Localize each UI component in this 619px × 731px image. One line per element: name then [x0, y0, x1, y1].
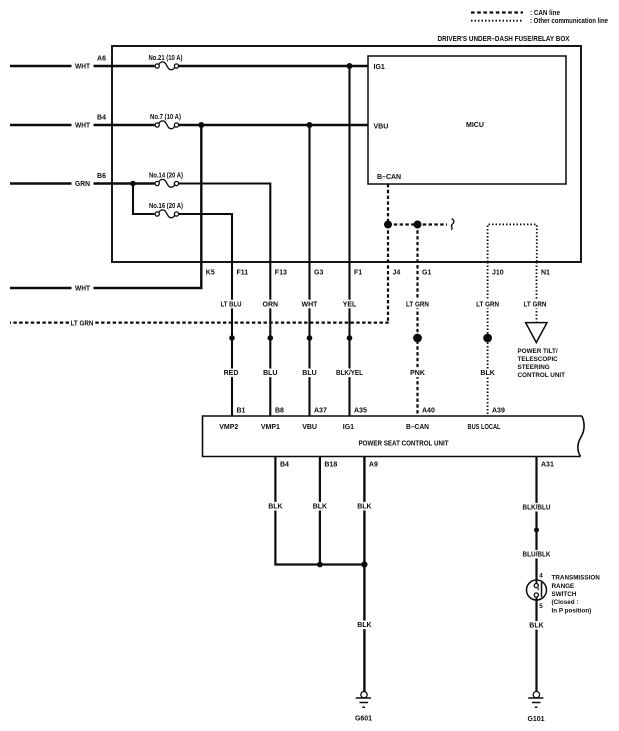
svg-text:WHT: WHT	[75, 123, 91, 130]
wire branch B6 to fuse No.16	[133, 184, 154, 215]
svg-text:STEERING: STEERING	[518, 364, 550, 371]
svg-text:B6: B6	[97, 173, 106, 180]
svg-text:RED: RED	[224, 370, 239, 377]
svg-text:BLK: BLK	[357, 504, 371, 511]
wire K5 WHT	[10, 125, 201, 288]
svg-text:BLU/BLK: BLU/BLK	[523, 552, 551, 559]
svg-text:SWITCH: SWITCH	[552, 591, 577, 598]
svg-text:5: 5	[539, 603, 543, 610]
legend CAN line sample	[471, 11, 523, 13]
junction dot B18	[317, 562, 323, 568]
svg-text:J4: J4	[393, 270, 401, 277]
splice dot A31	[534, 528, 539, 533]
triangle to power tilt unit	[526, 323, 547, 343]
fuse No.7 (10A)	[155, 121, 179, 129]
wire WHT A6 left segment	[10, 65, 154, 68]
svg-text:VMP2: VMP2	[219, 424, 238, 431]
svg-text:MICU: MICU	[466, 122, 484, 129]
svg-text:RANGE: RANGE	[552, 583, 575, 590]
wire fuse No.16 to pin F11	[179, 214, 232, 416]
svg-text:B1: B1	[237, 407, 246, 414]
svg-text:IG1: IG1	[374, 64, 385, 71]
svg-text:B–CAN: B–CAN	[377, 174, 401, 181]
wire color LT GRN (J10)	[475, 300, 501, 309]
svg-text:B18: B18	[324, 462, 337, 469]
svg-text:BLK: BLK	[529, 623, 543, 630]
legend other communication line sample	[471, 20, 523, 22]
svg-text:F13: F13	[275, 270, 287, 277]
svg-text:BLK/BLU: BLK/BLU	[523, 505, 551, 512]
wire color BLU (VMP1)	[262, 369, 278, 378]
wire color BLK (to G101)	[529, 621, 545, 630]
wire WHT B4 left segment	[10, 124, 154, 127]
wire GRN B6 left segment	[10, 182, 154, 185]
wire color YEL	[342, 300, 358, 309]
wire B-CAN dashed from MICU to J4	[387, 184, 389, 323]
connector dot J10	[483, 334, 492, 343]
svg-text:In P position): In P position)	[552, 607, 592, 614]
transmission range switch	[527, 580, 547, 600]
svg-text:No.14 (20 A): No.14 (20 A)	[149, 172, 183, 179]
svg-text:POWER SEAT CONTROL UNIT: POWER SEAT CONTROL UNIT	[359, 440, 450, 447]
wire A31 BLK/BLU	[535, 457, 537, 581]
svg-text:BLK: BLK	[357, 622, 371, 629]
svg-text:J10: J10	[492, 270, 504, 277]
fuse No.14 (20A)	[155, 179, 179, 187]
svg-text:GRN: GRN	[75, 181, 90, 188]
svg-text:POWER TILT/: POWER TILT/	[518, 348, 558, 355]
svg-text:IG1: IG1	[343, 424, 354, 431]
junction dot B6 branch	[130, 181, 136, 187]
wire B4 BLK	[275, 457, 364, 565]
svg-text:YEL: YEL	[343, 301, 357, 308]
svg-text:LT GRN: LT GRN	[71, 320, 94, 327]
wire color RED	[223, 369, 239, 378]
svg-text:WHT: WHT	[75, 286, 91, 293]
svg-text:G601: G601	[355, 716, 372, 723]
wire color LT GRN (G1)	[405, 300, 431, 309]
wire B18 BLK	[319, 457, 321, 565]
junction dot B-CAN	[384, 221, 392, 229]
svg-text:G101: G101	[527, 716, 544, 723]
svg-text:4: 4	[539, 573, 543, 580]
wire color BLK (A9)	[356, 502, 372, 511]
svg-text:B4: B4	[280, 462, 289, 469]
junction dot VBU/K5	[198, 122, 204, 128]
svg-text:F11: F11	[237, 270, 249, 277]
svg-text:: CAN line: : CAN line	[530, 10, 560, 17]
svg-text:WHT: WHT	[302, 301, 319, 308]
svg-text:BLK/YEL: BLK/YEL	[336, 370, 364, 377]
wire A9 BLK	[363, 457, 365, 692]
wire color BLK (to G601)	[356, 621, 372, 630]
svg-text:B–CAN: B–CAN	[406, 424, 429, 431]
wire fuse No.21 to MICU IG1	[179, 65, 368, 67]
fuse No.16 (20A)	[155, 210, 179, 218]
svg-text:VMP1: VMP1	[261, 424, 280, 431]
svg-text:VBU: VBU	[302, 424, 317, 431]
svg-text:A39: A39	[492, 407, 505, 414]
wire G3 vertical	[308, 125, 310, 416]
splice dot G3	[307, 335, 313, 341]
svg-text:CONTROL UNIT: CONTROL UNIT	[518, 372, 566, 379]
wire G1 dashed vertical	[416, 225, 418, 417]
svg-text:No.7 (10 A): No.7 (10 A)	[150, 114, 181, 121]
junction dot VBU/G3	[307, 122, 313, 128]
wire LT GRN dashed to left edge	[10, 322, 389, 324]
wire color WHT	[301, 300, 318, 309]
wire F1 vertical	[348, 66, 350, 416]
wire J10 dotted vertical	[487, 262, 489, 416]
svg-text:BUS LOCAL: BUS LOCAL	[468, 424, 502, 431]
wire color BLK (B18)	[312, 502, 328, 511]
svg-text:A6: A6	[97, 56, 106, 63]
fuse No.21 (10A)	[155, 62, 179, 70]
svg-text:BLU: BLU	[302, 370, 316, 377]
wire color BLK/BLU	[521, 503, 552, 512]
splice dot F11	[229, 335, 235, 341]
svg-text:B8: B8	[275, 407, 284, 414]
svg-text:A35: A35	[354, 407, 367, 414]
svg-text:F1: F1	[354, 270, 362, 277]
ground G101	[528, 692, 543, 708]
junction dot IG1/F1	[347, 63, 353, 69]
svg-text:(Closed :: (Closed :	[552, 599, 579, 606]
svg-text:No.16 (20 A): No.16 (20 A)	[149, 203, 183, 210]
svg-text:TRANSMISSION: TRANSMISSION	[552, 575, 601, 582]
wire color BLK (J10)	[480, 369, 496, 378]
svg-text:A37: A37	[314, 407, 327, 414]
driver's under-dash fuse/relay box	[112, 46, 581, 262]
svg-text:K5: K5	[206, 270, 215, 277]
MICU U1 box	[368, 56, 566, 184]
svg-text:G1: G1	[422, 270, 431, 277]
wire fuse No.14 to pin F13	[179, 184, 271, 417]
svg-text:A31: A31	[541, 462, 554, 469]
dotted box BUS LOCAL	[488, 224, 537, 262]
wire color LT BLU	[219, 300, 243, 309]
wire switch to G101	[535, 600, 537, 691]
svg-text:BLK: BLK	[313, 504, 327, 511]
svg-text:G3: G3	[314, 270, 323, 277]
splice dot F13	[268, 335, 274, 341]
connector dot G1	[413, 334, 422, 343]
wire color BLK/YEL	[335, 369, 365, 378]
svg-text:B4: B4	[97, 115, 106, 122]
wire color LT GRN (N1)	[522, 300, 548, 309]
wire color PNK	[410, 369, 426, 378]
svg-text:: Other communication line: : Other communication line	[530, 18, 608, 25]
wire color BLU (VBU)	[302, 369, 318, 378]
svg-text:PNK: PNK	[410, 370, 425, 377]
hook end	[451, 219, 453, 230]
svg-text:WHT: WHT	[75, 64, 91, 71]
ground G601	[356, 692, 371, 708]
svg-text:N1: N1	[541, 270, 550, 277]
svg-text:No.21 (10 A): No.21 (10 A)	[149, 55, 183, 62]
dashed branch wire with hook	[388, 223, 447, 225]
splice dot F1	[347, 335, 353, 341]
wire N1 dotted vertical	[536, 262, 538, 322]
svg-text:ORN: ORN	[263, 301, 279, 308]
junction dot G1	[414, 221, 422, 229]
svg-text:BLK: BLK	[268, 504, 282, 511]
svg-text:LT GRN: LT GRN	[524, 301, 547, 308]
svg-text:LT GRN: LT GRN	[476, 301, 499, 308]
svg-text:A40: A40	[422, 407, 435, 414]
wire color ORN	[262, 300, 278, 309]
svg-text:DRIVER'S UNDER–DASH FUSE/RELAY: DRIVER'S UNDER–DASH FUSE/RELAY BOX	[438, 36, 570, 43]
junction dot A9	[361, 561, 367, 567]
wire fuse No.7 to MICU VBU	[179, 124, 368, 126]
wire color BLU/BLK	[521, 550, 552, 559]
svg-text:LT GRN: LT GRN	[406, 301, 429, 308]
svg-text:BLK: BLK	[480, 370, 494, 377]
svg-text:VBU: VBU	[374, 124, 389, 131]
svg-text:LT BLU: LT BLU	[221, 301, 242, 308]
svg-text:TELESCOPIC: TELESCOPIC	[518, 356, 559, 363]
power seat control unit box	[203, 416, 585, 457]
svg-text:BLU: BLU	[263, 370, 277, 377]
svg-text:A9: A9	[369, 462, 378, 469]
wire color BLK (B4)	[267, 502, 283, 511]
